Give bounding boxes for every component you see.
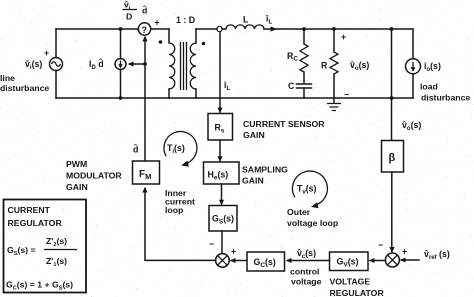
dependent source vi/D d xyxy=(138,18,159,36)
block Gc(s) xyxy=(247,252,285,271)
svg-text:CURRENT SENSOR: CURRENT SENSOR xyxy=(243,119,325,129)
svg-text:D: D xyxy=(126,12,132,22)
svg-text:line: line xyxy=(0,73,15,83)
current regulator box xyxy=(4,200,87,293)
wire beta to summing junction xyxy=(389,172,394,253)
label outer voltage loop xyxy=(287,207,338,228)
wire Rs to He xyxy=(218,140,223,162)
wire load branch xyxy=(412,29,414,98)
wire current-source branch xyxy=(120,29,122,98)
svg-text:C: C xyxy=(288,81,295,91)
inductor L xyxy=(226,25,264,29)
svg-text:VOLTAGE: VOLTAGE xyxy=(330,277,371,287)
wire sensed current line down to Rs xyxy=(218,32,223,114)
ground xyxy=(327,98,341,111)
svg-text:−: − xyxy=(209,239,214,249)
label PWM MODULATOR GAIN xyxy=(66,159,122,192)
wire left branch xyxy=(55,29,57,98)
svg-text:disturbance: disturbance xyxy=(421,93,470,103)
source Vi(s) line disturbance xyxy=(44,48,63,71)
block FM pwm modulator xyxy=(133,161,160,184)
wire Gs to summer xyxy=(221,231,223,254)
wire summer output to FM xyxy=(142,187,215,261)
node junction on d line xyxy=(143,62,147,66)
node open circle secondary top xyxy=(217,26,222,31)
svg-text:load: load xyxy=(420,82,438,92)
wire arrow into ID source xyxy=(128,62,145,67)
block Rs current sensor xyxy=(208,114,233,141)
label VOLTAGE REGULATOR xyxy=(330,277,385,297)
svg-text:+: + xyxy=(231,247,236,257)
svg-text:disturbance: disturbance xyxy=(0,83,49,93)
svg-text:GAIN: GAIN xyxy=(242,176,264,186)
loop Ti(s) inner xyxy=(164,131,197,166)
svg-text:REGULATOR: REGULATOR xyxy=(8,218,63,228)
svg-text:+: + xyxy=(44,48,49,58)
wire output node vertical xyxy=(391,29,393,98)
wire vref input arrow xyxy=(400,258,419,263)
label line disturbance xyxy=(0,73,49,93)
svg-text:β: β xyxy=(389,152,396,164)
wire d-hat control line up to dependent source xyxy=(142,36,147,161)
label iL arrow on rail xyxy=(265,14,277,32)
loop Tv(s) outer xyxy=(292,171,327,208)
svg-text:d̂: d̂ xyxy=(133,144,138,155)
wire bottom rail xyxy=(56,97,413,99)
svg-text:d̂: d̂ xyxy=(142,5,147,16)
label vi/D d fraction xyxy=(123,0,148,22)
node junction R branch top xyxy=(332,27,336,31)
svg-text:MODULATOR: MODULATOR xyxy=(66,171,122,181)
label control voltage xyxy=(290,267,322,287)
current source ID*d xyxy=(115,59,126,70)
block He(s) sampling gain xyxy=(204,162,240,184)
svg-text:−: − xyxy=(378,240,383,250)
svg-text:loop: loop xyxy=(165,205,183,215)
node junction top of ID branch xyxy=(119,27,123,31)
svg-text:REGULATOR: REGULATOR xyxy=(330,288,385,297)
svg-text:1 : D: 1 : D xyxy=(176,15,195,25)
node junction bottom of ID branch xyxy=(119,96,123,100)
svg-text:Outer: Outer xyxy=(287,207,311,217)
wire vo sense down to beta xyxy=(391,98,393,141)
svg-text:PWM: PWM xyxy=(66,159,87,169)
label SAMPLING GAIN xyxy=(242,165,288,186)
transformer 1:D xyxy=(159,29,206,98)
node junction output bottom xyxy=(390,96,394,100)
node junction Rc branch top xyxy=(302,27,306,31)
svg-text:SAMPLING: SAMPLING xyxy=(242,165,288,175)
summing junction current xyxy=(216,254,230,268)
resistor Rc xyxy=(300,29,308,83)
svg-text:?: ? xyxy=(142,25,148,35)
svg-text:+: + xyxy=(402,247,407,257)
svg-text:voltage loop: voltage loop xyxy=(287,218,338,228)
svg-text:L: L xyxy=(243,15,249,25)
wire Gv to Gc control voltage xyxy=(286,258,330,263)
svg-text:+: + xyxy=(341,32,346,42)
label load disturbance xyxy=(420,82,470,103)
svg-text:+: + xyxy=(155,18,160,28)
svg-text:−: − xyxy=(344,90,349,100)
svg-text:control: control xyxy=(290,267,319,277)
label inner current loop xyxy=(165,188,195,215)
block Gs(s) xyxy=(209,206,237,232)
wire He to Gs xyxy=(219,184,224,206)
svg-text:CURRENT: CURRENT xyxy=(8,205,51,215)
summing junction voltage xyxy=(385,253,399,267)
label CURRENT SENSOR GAIN xyxy=(243,119,325,140)
block Gv(s) voltage regulator xyxy=(330,252,369,271)
block beta xyxy=(382,141,404,173)
svg-text:voltage: voltage xyxy=(291,277,322,287)
resistor R xyxy=(330,29,338,98)
svg-text:R: R xyxy=(321,61,328,71)
wire summer to Gv xyxy=(369,258,386,263)
current source io(s) load disturbance xyxy=(406,59,421,74)
capacitor C xyxy=(297,84,312,98)
node junction output top xyxy=(390,27,394,31)
wire Gc to current summer xyxy=(230,258,247,263)
svg-text:GAIN: GAIN xyxy=(243,130,265,140)
svg-text:GAIN: GAIN xyxy=(66,182,88,192)
wire top rail xyxy=(56,28,413,30)
